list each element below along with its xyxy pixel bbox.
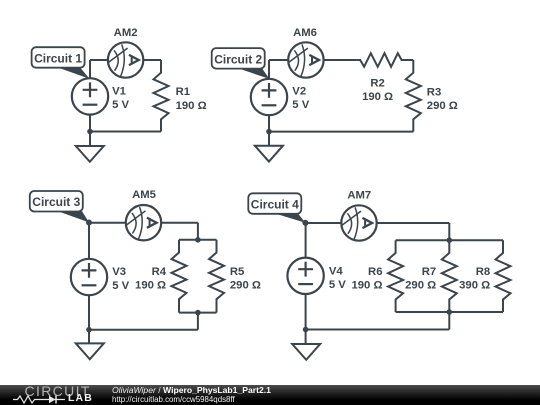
wire <box>448 312 450 330</box>
label R6 value <box>351 266 382 292</box>
wire <box>179 239 217 241</box>
resistor R4 <box>172 240 187 313</box>
label "Circuit 4" callout <box>248 193 308 225</box>
label "Circuit 3" callout <box>30 191 92 225</box>
wire <box>269 59 288 61</box>
svg-text:190 Ω: 190 Ω <box>176 100 207 112</box>
label R5 value <box>230 266 261 292</box>
footer text <box>112 386 271 404</box>
voltage source V4 <box>287 258 323 294</box>
wire <box>161 222 198 224</box>
label "Circuit 1" callout <box>32 47 90 79</box>
resistor R7 <box>442 240 457 312</box>
ground <box>76 343 104 359</box>
voltage source V1 <box>72 78 108 114</box>
resistor R3 <box>406 60 421 132</box>
wire <box>179 312 217 314</box>
svg-text:290 Ω: 290 Ω <box>405 280 436 292</box>
wire <box>197 223 199 240</box>
junction dot <box>86 327 92 333</box>
svg-text:5 V: 5 V <box>329 279 346 291</box>
wire <box>268 115 270 146</box>
ammeter AM7 <box>341 205 376 240</box>
ground <box>76 146 104 162</box>
label V4 value <box>329 266 346 292</box>
junction dot <box>266 129 272 135</box>
svg-text:R6: R6 <box>368 266 382 278</box>
resistor R2 <box>357 53 414 67</box>
wire <box>88 295 90 343</box>
junction dot <box>86 220 92 226</box>
wire <box>197 313 199 330</box>
svg-text:R5: R5 <box>230 266 244 278</box>
wire <box>90 131 161 133</box>
svg-text:AM6: AM6 <box>293 27 317 39</box>
svg-text:V2: V2 <box>292 85 306 97</box>
wire <box>306 329 450 331</box>
svg-text:290 Ω: 290 Ω <box>427 100 458 112</box>
label R2 value <box>362 77 393 103</box>
wire <box>89 329 198 331</box>
svg-text:R1: R1 <box>176 86 190 98</box>
ground <box>292 344 320 360</box>
svg-text:R4: R4 <box>152 266 167 278</box>
svg-text:R8: R8 <box>476 266 490 278</box>
svg-text:Circuit 1: Circuit 1 <box>34 51 82 65</box>
voltage source V3 <box>71 259 107 295</box>
svg-text:R2: R2 <box>370 77 384 89</box>
resistor R5 <box>209 240 224 313</box>
wire <box>448 223 450 240</box>
wire <box>89 60 91 78</box>
ammeter AM2 <box>108 42 143 77</box>
svg-text:Circuit 3: Circuit 3 <box>32 195 80 209</box>
svg-text:190 Ω: 190 Ω <box>135 280 166 292</box>
label V2 value <box>292 85 309 111</box>
svg-text:V4: V4 <box>329 266 344 278</box>
label "Circuit 2" callout <box>212 48 270 79</box>
label V1 value <box>112 85 129 111</box>
label AM7 <box>347 189 371 201</box>
wire <box>324 59 357 61</box>
svg-text:5 V: 5 V <box>112 280 129 292</box>
resistor R1 <box>154 60 169 132</box>
svg-text:390 Ω: 390 Ω <box>459 280 490 292</box>
ammeter AM6 <box>288 42 323 77</box>
label R7 value <box>405 266 436 292</box>
svg-text:AM5: AM5 <box>132 189 156 201</box>
wire <box>306 222 342 224</box>
junction dot <box>303 327 309 333</box>
wire <box>89 115 91 146</box>
ground <box>255 146 283 162</box>
resistor R8 <box>496 240 511 312</box>
junction dot <box>447 309 453 315</box>
voltage source V2 <box>251 79 287 115</box>
wire <box>396 239 503 241</box>
svg-text:290 Ω: 290 Ω <box>230 280 261 292</box>
label R8 value <box>459 266 490 292</box>
wire <box>396 311 503 313</box>
junction dot <box>87 129 93 135</box>
junction dot <box>195 237 201 243</box>
svg-text:Circuit 4: Circuit 4 <box>251 198 299 212</box>
svg-text:5 V: 5 V <box>292 99 309 111</box>
wire <box>377 222 450 224</box>
wire <box>268 60 270 79</box>
label R4 value <box>135 266 167 292</box>
logo resistor-diode glyph + LAB <box>13 394 113 405</box>
svg-text:190 Ω: 190 Ω <box>362 91 393 103</box>
wire <box>143 59 161 61</box>
label AM2 <box>114 27 138 39</box>
ammeter AM5 <box>126 205 161 240</box>
wire <box>305 223 307 257</box>
wire <box>305 294 307 344</box>
CircuitLab logo <box>24 385 104 405</box>
svg-text:Circuit 2: Circuit 2 <box>214 52 262 66</box>
wire <box>90 59 108 61</box>
svg-text:AM7: AM7 <box>347 189 371 201</box>
wire <box>269 131 413 133</box>
label AM6 <box>293 27 317 39</box>
junction dot <box>195 310 201 316</box>
wire <box>89 222 126 224</box>
junction dot <box>447 237 453 243</box>
svg-text:190 Ω: 190 Ω <box>351 280 382 292</box>
svg-text:AM2: AM2 <box>114 27 138 39</box>
junction dot <box>303 220 309 226</box>
svg-text:R3: R3 <box>427 86 441 98</box>
label AM5 <box>132 189 156 201</box>
footer bar <box>0 385 540 405</box>
wire <box>88 223 90 259</box>
svg-text:R7: R7 <box>422 266 436 278</box>
label R1 value <box>176 86 207 112</box>
svg-text:V1: V1 <box>112 85 126 97</box>
resistor R6 <box>388 240 403 312</box>
svg-text:V3: V3 <box>112 266 126 278</box>
svg-text:5 V: 5 V <box>112 99 129 111</box>
label R3 value <box>427 86 458 112</box>
label V3 value <box>112 266 129 292</box>
